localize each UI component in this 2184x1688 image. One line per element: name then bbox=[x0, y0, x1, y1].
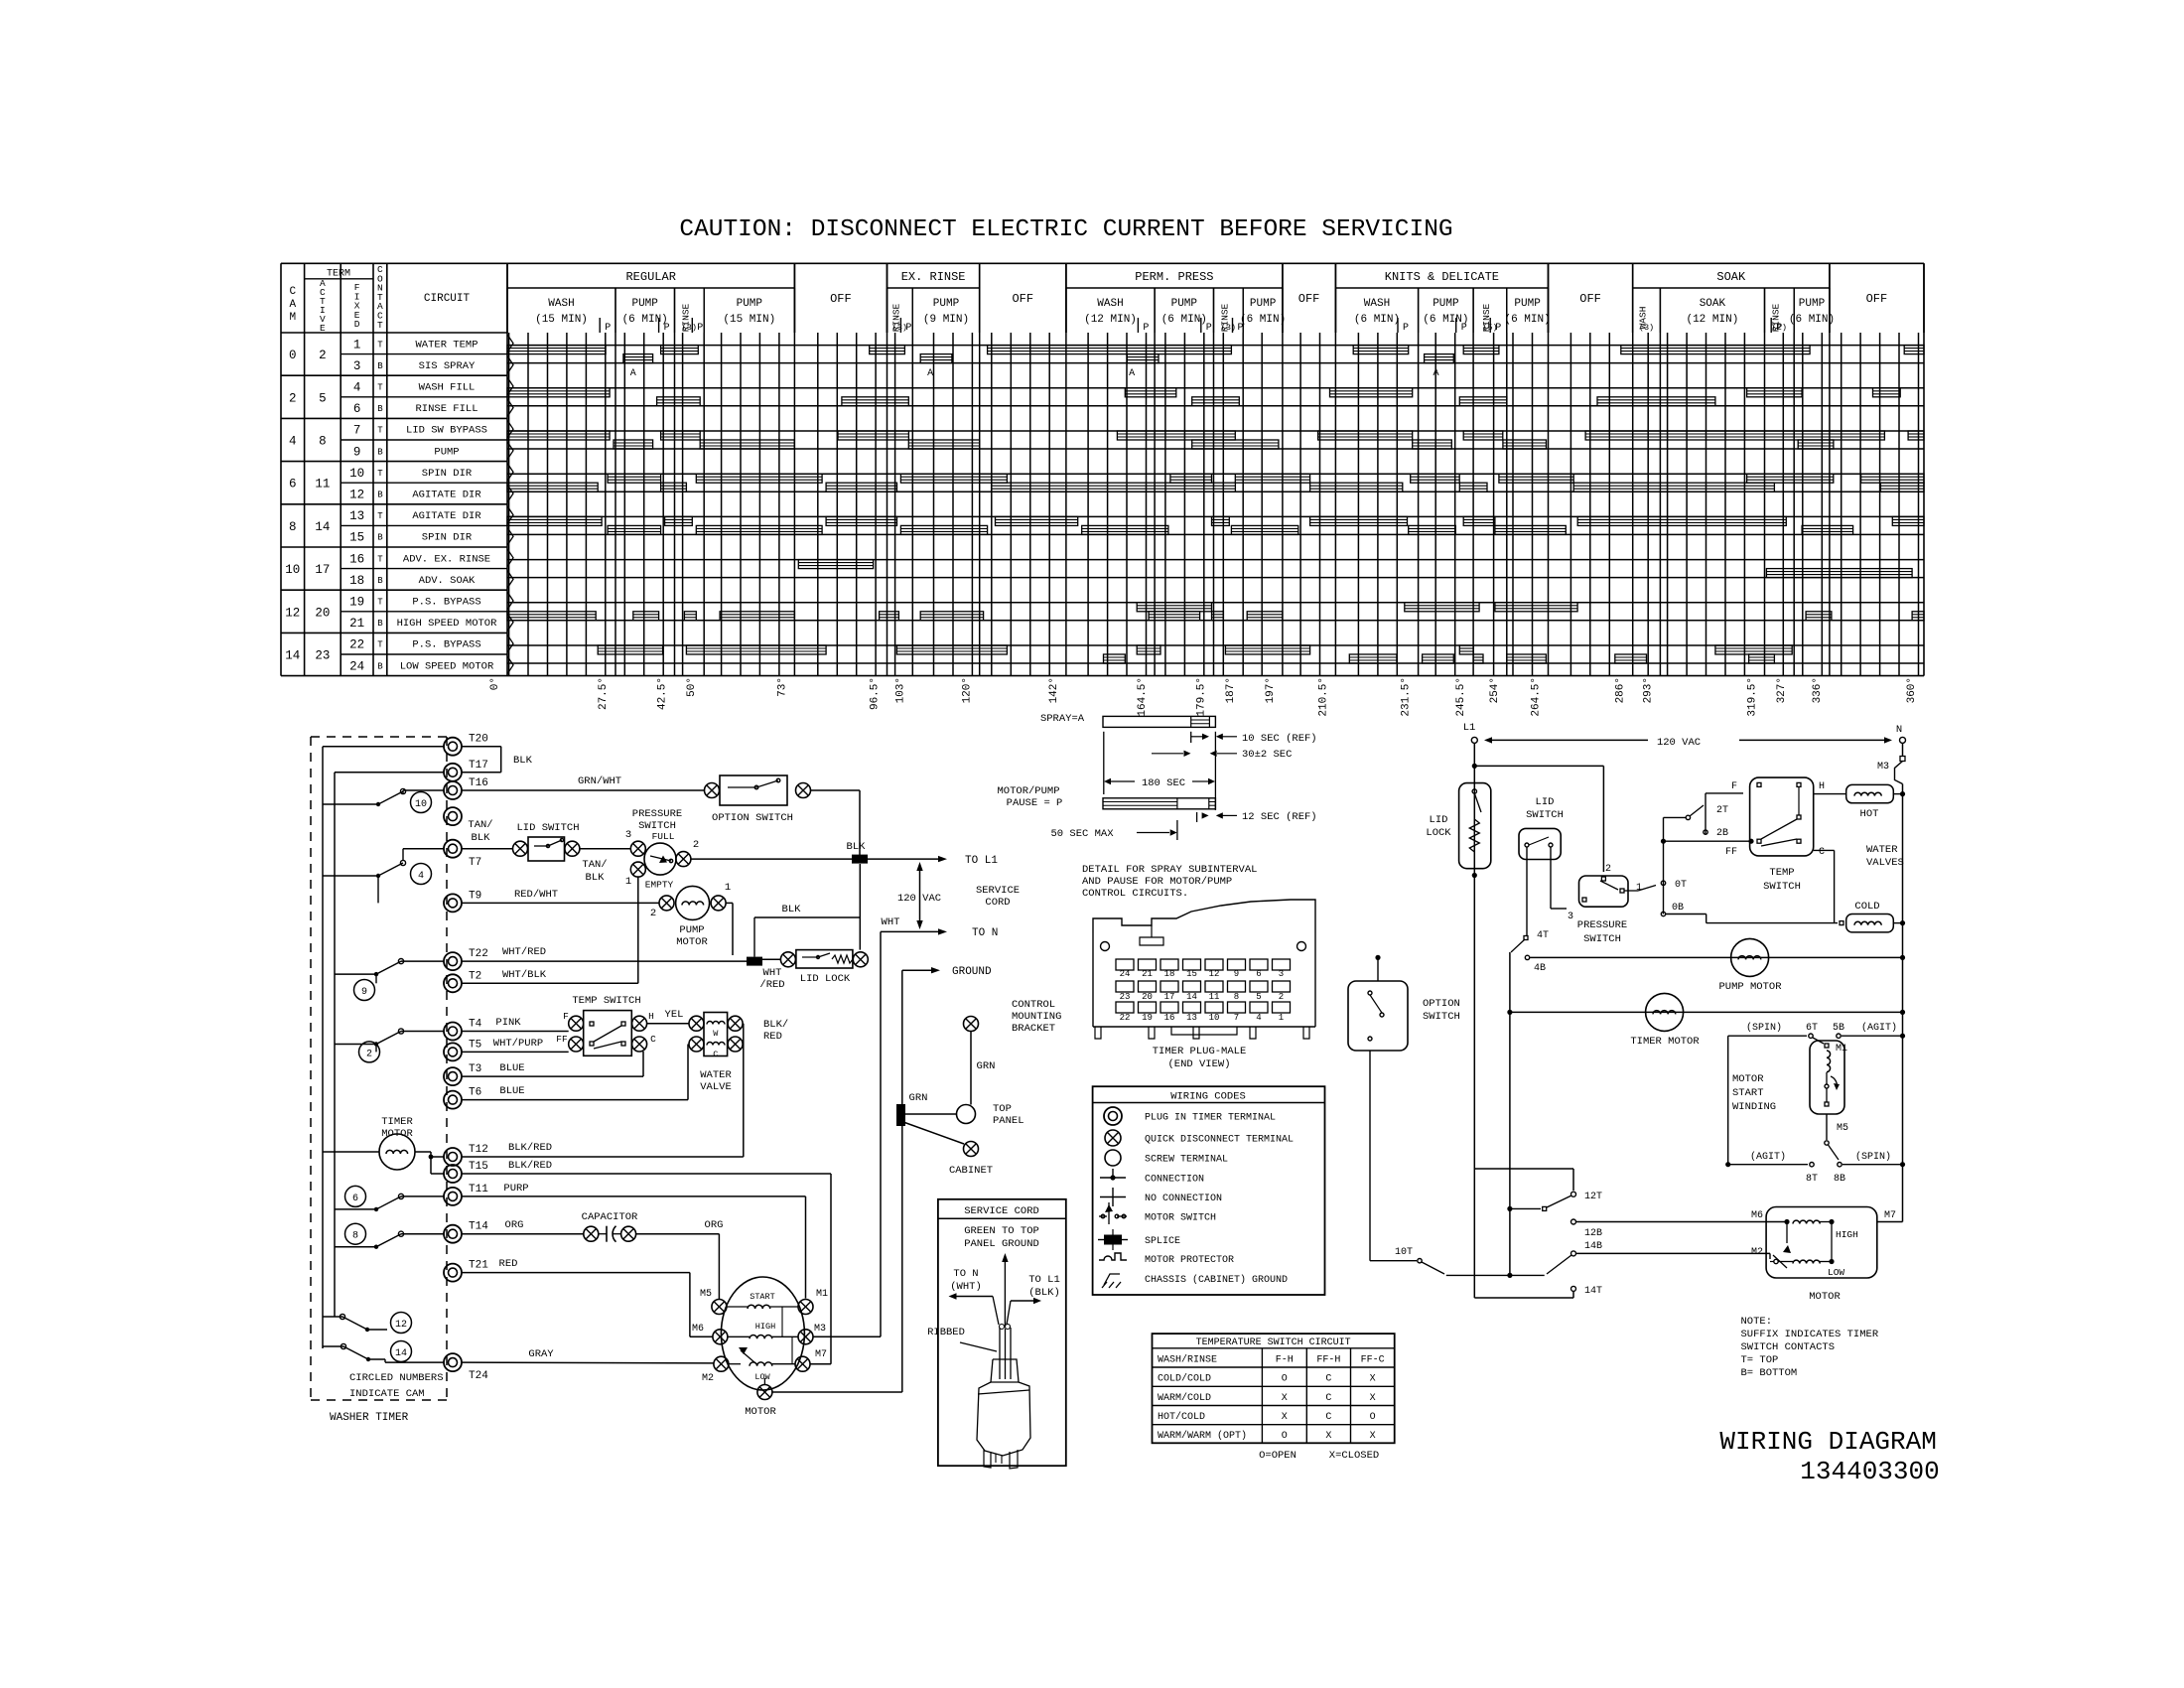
svg-text:C: C bbox=[1819, 847, 1825, 858]
svg-text:12T: 12T bbox=[1584, 1192, 1602, 1202]
svg-text:11: 11 bbox=[1209, 992, 1220, 1002]
svg-text:C: C bbox=[713, 1050, 718, 1059]
svg-text:WIRING DIAGRAM: WIRING DIAGRAM bbox=[1719, 1427, 1936, 1457]
svg-text:MOTOR PROTECTOR: MOTOR PROTECTOR bbox=[1145, 1255, 1234, 1266]
svg-text:PRESSURE: PRESSURE bbox=[1577, 919, 1627, 931]
svg-text:BRACKET: BRACKET bbox=[1012, 1023, 1055, 1035]
svg-text:(12 MIN): (12 MIN) bbox=[1084, 314, 1137, 326]
svg-text:PURP: PURP bbox=[503, 1183, 528, 1195]
svg-text:T= TOP: T= TOP bbox=[1741, 1354, 1779, 1366]
svg-text:142°: 142° bbox=[1048, 677, 1060, 703]
svg-text:24: 24 bbox=[1120, 969, 1131, 979]
svg-text:M3: M3 bbox=[814, 1324, 826, 1335]
svg-text:CIRCUIT: CIRCUIT bbox=[424, 293, 471, 305]
svg-text:TAN/: TAN/ bbox=[468, 819, 492, 831]
svg-text:WHT/RED: WHT/RED bbox=[502, 946, 546, 958]
svg-text:PUMP: PUMP bbox=[679, 924, 704, 936]
svg-text:ORG: ORG bbox=[505, 1219, 524, 1231]
svg-text:T: T bbox=[377, 426, 383, 436]
svg-text:T7: T7 bbox=[469, 857, 481, 869]
svg-text:4: 4 bbox=[289, 435, 297, 449]
svg-text:T24: T24 bbox=[469, 1370, 488, 1382]
svg-text:50°: 50° bbox=[686, 677, 698, 697]
svg-text:PANEL: PANEL bbox=[993, 1115, 1024, 1127]
svg-text:24: 24 bbox=[349, 659, 364, 673]
svg-text:CONTROL: CONTROL bbox=[1012, 999, 1055, 1011]
svg-text:BLK/RED: BLK/RED bbox=[508, 1142, 552, 1154]
svg-text:TEMP SWITCH: TEMP SWITCH bbox=[572, 995, 640, 1007]
svg-text:O: O bbox=[1282, 1374, 1288, 1385]
svg-text:(15 MIN): (15 MIN) bbox=[723, 314, 775, 326]
svg-text:CAUTION: DISCONNECT ELECTRIC C: CAUTION: DISCONNECT ELECTRIC CURRENT BEF… bbox=[679, 216, 1452, 243]
svg-text:FULL: FULL bbox=[652, 831, 675, 842]
svg-text:T: T bbox=[377, 383, 383, 393]
svg-text:(6 MIN): (6 MIN) bbox=[1789, 314, 1835, 326]
svg-text:12: 12 bbox=[395, 1320, 407, 1331]
svg-text:50 SEC MAX: 50 SEC MAX bbox=[1050, 828, 1114, 840]
svg-text:(3): (3) bbox=[1639, 323, 1654, 333]
svg-text:8T: 8T bbox=[1806, 1174, 1818, 1185]
svg-text:WARM/WARM (OPT): WARM/WARM (OPT) bbox=[1158, 1430, 1247, 1442]
svg-text:A: A bbox=[630, 368, 636, 379]
svg-text:/RED: /RED bbox=[759, 979, 784, 991]
svg-text:2: 2 bbox=[1279, 992, 1284, 1002]
svg-text:10: 10 bbox=[349, 467, 364, 481]
svg-text:2: 2 bbox=[693, 839, 699, 851]
svg-text:L1: L1 bbox=[1463, 722, 1476, 734]
svg-text:9: 9 bbox=[353, 445, 361, 459]
svg-text:23: 23 bbox=[315, 649, 330, 663]
svg-text:(SPIN): (SPIN) bbox=[1855, 1151, 1891, 1163]
svg-text:MOTOR: MOTOR bbox=[381, 1128, 413, 1140]
svg-text:HOT/COLD: HOT/COLD bbox=[1158, 1411, 1205, 1423]
svg-text:X: X bbox=[1282, 1393, 1288, 1404]
svg-text:2: 2 bbox=[319, 349, 327, 362]
svg-text:(WHT): (WHT) bbox=[950, 1281, 982, 1293]
svg-text:18: 18 bbox=[1164, 969, 1175, 979]
svg-text:PRESSURE: PRESSURE bbox=[632, 808, 682, 820]
svg-text:PUMP: PUMP bbox=[631, 298, 658, 310]
svg-text:WINDING: WINDING bbox=[1732, 1101, 1776, 1113]
svg-text:WHT: WHT bbox=[763, 967, 782, 979]
svg-text:PUMP: PUMP bbox=[1799, 298, 1826, 310]
svg-text:2: 2 bbox=[366, 1049, 372, 1059]
svg-text:14: 14 bbox=[1186, 992, 1197, 1002]
svg-text:13: 13 bbox=[349, 509, 364, 523]
svg-text:F-H: F-H bbox=[1276, 1355, 1294, 1366]
svg-text:(12 MIN): (12 MIN) bbox=[1686, 314, 1738, 326]
svg-text:A: A bbox=[289, 299, 296, 311]
svg-text:8: 8 bbox=[319, 435, 327, 449]
svg-text:SPIN DIR: SPIN DIR bbox=[422, 468, 473, 480]
svg-text:ORG: ORG bbox=[705, 1219, 724, 1231]
svg-text:PUMP MOTOR: PUMP MOTOR bbox=[1718, 981, 1782, 993]
svg-text:PINK: PINK bbox=[495, 1017, 521, 1029]
svg-text:TAN/: TAN/ bbox=[582, 859, 607, 871]
svg-text:12: 12 bbox=[285, 606, 300, 620]
svg-text:(BLK): (BLK) bbox=[1028, 1287, 1060, 1299]
svg-text:16: 16 bbox=[349, 552, 364, 566]
svg-text:15: 15 bbox=[349, 531, 364, 545]
svg-text:10: 10 bbox=[285, 563, 300, 577]
svg-text:VALVES: VALVES bbox=[1866, 857, 1904, 869]
svg-text:120 VAC: 120 VAC bbox=[1657, 737, 1701, 749]
svg-text:M2: M2 bbox=[1751, 1247, 1763, 1258]
svg-text:GROUND: GROUND bbox=[952, 966, 992, 978]
svg-text:OFF: OFF bbox=[1866, 292, 1888, 306]
svg-text:CHASSIS (CABINET) GROUND: CHASSIS (CABINET) GROUND bbox=[1145, 1274, 1288, 1286]
svg-text:14: 14 bbox=[315, 520, 330, 534]
svg-text:LOW: LOW bbox=[754, 1372, 770, 1382]
svg-text:1: 1 bbox=[1636, 883, 1642, 894]
svg-text:14B: 14B bbox=[1584, 1241, 1602, 1252]
svg-text:(3): (3) bbox=[1221, 323, 1236, 333]
svg-text:KNITS & DELICATE: KNITS & DELICATE bbox=[1385, 270, 1499, 284]
svg-text:P: P bbox=[905, 323, 911, 334]
svg-text:PUMP: PUMP bbox=[1250, 298, 1277, 310]
svg-text:M2: M2 bbox=[702, 1373, 714, 1384]
svg-text:M3: M3 bbox=[1877, 762, 1889, 773]
svg-text:N: N bbox=[1896, 724, 1902, 736]
svg-text:BLK: BLK bbox=[586, 872, 606, 884]
svg-text:T3: T3 bbox=[469, 1063, 481, 1075]
svg-text:P: P bbox=[1206, 323, 1212, 334]
svg-text:T14: T14 bbox=[469, 1221, 488, 1233]
svg-text:336°: 336° bbox=[1812, 677, 1824, 703]
svg-text:19: 19 bbox=[1142, 1013, 1153, 1023]
svg-text:X: X bbox=[1370, 1431, 1376, 1442]
svg-text:SOAK: SOAK bbox=[1700, 298, 1726, 310]
svg-text:5B: 5B bbox=[1833, 1023, 1844, 1034]
svg-text:12B: 12B bbox=[1584, 1228, 1602, 1239]
svg-text:WIRING CODES: WIRING CODES bbox=[1170, 1091, 1246, 1103]
svg-text:(AGIT): (AGIT) bbox=[1750, 1151, 1786, 1163]
svg-text:C: C bbox=[650, 1034, 656, 1045]
svg-text:SOAK: SOAK bbox=[1716, 270, 1746, 284]
svg-text:SPLICE: SPLICE bbox=[1145, 1236, 1180, 1247]
svg-text:SIS SPRAY: SIS SPRAY bbox=[419, 360, 476, 372]
svg-text:X: X bbox=[1282, 1412, 1288, 1423]
svg-text:B: B bbox=[377, 619, 383, 629]
svg-text:AGITATE DIR: AGITATE DIR bbox=[412, 490, 481, 501]
svg-text:C: C bbox=[289, 286, 296, 298]
svg-text:COLD/COLD: COLD/COLD bbox=[1158, 1373, 1211, 1385]
svg-text:10T: 10T bbox=[1395, 1247, 1413, 1258]
svg-text:PUMP: PUMP bbox=[933, 298, 960, 310]
svg-text:M5: M5 bbox=[700, 1289, 712, 1300]
svg-text:DETAIL FOR SPRAY SUBINTERVAL: DETAIL FOR SPRAY SUBINTERVAL bbox=[1082, 864, 1257, 876]
svg-text:180 SEC: 180 SEC bbox=[1142, 777, 1185, 789]
svg-text:6: 6 bbox=[1256, 969, 1261, 979]
svg-text:BLK: BLK bbox=[782, 904, 802, 915]
svg-text:(6 MIN): (6 MIN) bbox=[1240, 314, 1286, 326]
svg-text:T11: T11 bbox=[469, 1184, 488, 1196]
svg-text:OFF: OFF bbox=[830, 292, 852, 306]
svg-text:SERVICE: SERVICE bbox=[976, 885, 1020, 897]
svg-text:LOW: LOW bbox=[1828, 1267, 1844, 1278]
svg-text:9: 9 bbox=[1234, 969, 1239, 979]
svg-text:MOTOR: MOTOR bbox=[1732, 1073, 1764, 1085]
svg-text:8: 8 bbox=[289, 520, 297, 534]
svg-text:6: 6 bbox=[352, 1194, 358, 1204]
svg-text:5: 5 bbox=[1256, 992, 1261, 1002]
svg-text:VALVE: VALVE bbox=[700, 1081, 732, 1093]
svg-text:HIGH SPEED MOTOR: HIGH SPEED MOTOR bbox=[397, 618, 498, 630]
svg-text:T2: T2 bbox=[469, 970, 481, 982]
svg-text:WATER TEMP: WATER TEMP bbox=[415, 339, 478, 351]
svg-text:P: P bbox=[664, 323, 670, 334]
svg-text:SERVICE CORD: SERVICE CORD bbox=[964, 1205, 1039, 1217]
svg-text:WARM/COLD: WARM/COLD bbox=[1158, 1392, 1211, 1404]
svg-text:M6: M6 bbox=[1751, 1210, 1763, 1221]
svg-text:0°: 0° bbox=[489, 677, 501, 690]
svg-text:17: 17 bbox=[315, 563, 330, 577]
svg-text:P: P bbox=[1403, 323, 1409, 334]
svg-text:T: T bbox=[377, 554, 383, 564]
svg-text:E: E bbox=[320, 323, 326, 334]
svg-text:360°: 360° bbox=[1906, 677, 1918, 703]
svg-text:EX. RINSE: EX. RINSE bbox=[901, 270, 966, 284]
svg-text:FF-C: FF-C bbox=[1361, 1355, 1385, 1366]
svg-text:T: T bbox=[377, 640, 383, 650]
svg-text:(6 MIN): (6 MIN) bbox=[1161, 314, 1207, 326]
svg-text:CIRCLED NUMBERS: CIRCLED NUMBERS bbox=[349, 1372, 444, 1384]
svg-text:SPIN DIR: SPIN DIR bbox=[422, 532, 473, 544]
svg-text:254°: 254° bbox=[1489, 677, 1501, 703]
svg-text:7: 7 bbox=[1234, 1013, 1239, 1023]
svg-text:RED/WHT: RED/WHT bbox=[514, 889, 558, 901]
svg-text:SWITCH: SWITCH bbox=[1526, 809, 1564, 821]
svg-text:A: A bbox=[1129, 368, 1135, 379]
svg-text:4B: 4B bbox=[1534, 963, 1546, 974]
svg-text:WHT/PURP: WHT/PURP bbox=[493, 1038, 543, 1050]
svg-text:SWITCH: SWITCH bbox=[1583, 933, 1621, 945]
svg-text:0B: 0B bbox=[1672, 903, 1684, 914]
svg-text:TIMER PLUG-MALE: TIMER PLUG-MALE bbox=[1153, 1046, 1247, 1057]
svg-text:10: 10 bbox=[415, 799, 427, 810]
svg-text:WATER: WATER bbox=[1866, 844, 1898, 856]
svg-text:17: 17 bbox=[1164, 992, 1175, 1002]
svg-text:CAPACITOR: CAPACITOR bbox=[582, 1211, 638, 1223]
svg-text:15: 15 bbox=[1186, 969, 1197, 979]
svg-text:(SPIN): (SPIN) bbox=[1746, 1022, 1782, 1034]
svg-text:1: 1 bbox=[353, 338, 361, 352]
svg-text:23: 23 bbox=[1120, 992, 1131, 1002]
svg-text:8: 8 bbox=[352, 1231, 358, 1242]
svg-text:P: P bbox=[1495, 323, 1501, 334]
svg-text:B: B bbox=[377, 661, 383, 671]
svg-text:22: 22 bbox=[349, 638, 364, 652]
svg-text:P: P bbox=[1776, 323, 1782, 334]
svg-text:10: 10 bbox=[1209, 1013, 1220, 1023]
svg-text:LID LOCK: LID LOCK bbox=[800, 973, 851, 985]
svg-text:OPTION SWITCH: OPTION SWITCH bbox=[712, 812, 793, 824]
svg-text:MOTOR: MOTOR bbox=[745, 1406, 776, 1418]
svg-text:WASH FILL: WASH FILL bbox=[419, 382, 476, 394]
svg-text:B: B bbox=[377, 491, 383, 500]
svg-text:M6: M6 bbox=[692, 1324, 704, 1335]
svg-text:6: 6 bbox=[289, 478, 297, 492]
svg-text:WASH/RINSE: WASH/RINSE bbox=[1158, 1354, 1217, 1366]
svg-text:B: B bbox=[377, 576, 383, 586]
svg-text:PERM. PRESS: PERM. PRESS bbox=[1135, 270, 1213, 284]
svg-text:P: P bbox=[605, 323, 611, 334]
svg-text:T21: T21 bbox=[469, 1260, 488, 1272]
svg-text:21: 21 bbox=[1142, 969, 1153, 979]
svg-text:T17: T17 bbox=[469, 760, 488, 772]
svg-text:MOTOR/PUMP: MOTOR/PUMP bbox=[997, 785, 1059, 797]
svg-text:T6: T6 bbox=[469, 1087, 481, 1099]
svg-text:START: START bbox=[1732, 1087, 1764, 1099]
svg-text:TERM: TERM bbox=[327, 269, 350, 280]
svg-text:P: P bbox=[697, 323, 703, 334]
svg-text:TOP: TOP bbox=[993, 1103, 1012, 1115]
svg-text:H: H bbox=[648, 1011, 654, 1022]
svg-text:264.5°: 264.5° bbox=[1531, 677, 1543, 717]
svg-text:1: 1 bbox=[725, 882, 731, 894]
svg-text:PANEL GROUND: PANEL GROUND bbox=[964, 1238, 1039, 1250]
svg-text:14: 14 bbox=[395, 1348, 407, 1359]
svg-text:210.5°: 210.5° bbox=[1317, 677, 1329, 717]
svg-text:21: 21 bbox=[349, 617, 364, 631]
svg-text:(6 MIN): (6 MIN) bbox=[1354, 314, 1400, 326]
svg-text:2T: 2T bbox=[1716, 805, 1728, 816]
svg-text:12 SEC (REF): 12 SEC (REF) bbox=[1242, 811, 1317, 823]
svg-text:REGULAR: REGULAR bbox=[625, 270, 675, 284]
svg-text:4: 4 bbox=[1256, 1013, 1261, 1023]
svg-text:2: 2 bbox=[650, 908, 656, 919]
svg-text:2: 2 bbox=[289, 391, 297, 405]
svg-text:WASH: WASH bbox=[548, 298, 574, 310]
svg-text:AND PAUSE FOR MOTOR/PUMP: AND PAUSE FOR MOTOR/PUMP bbox=[1082, 876, 1232, 888]
svg-text:179.5°: 179.5° bbox=[1196, 677, 1208, 717]
svg-text:M1: M1 bbox=[816, 1289, 828, 1300]
svg-text:OPTION: OPTION bbox=[1423, 998, 1460, 1010]
svg-text:C: C bbox=[1325, 1374, 1331, 1385]
svg-text:X: X bbox=[1325, 1431, 1331, 1442]
svg-text:TIMER: TIMER bbox=[381, 1116, 413, 1128]
svg-text:T9: T9 bbox=[469, 890, 481, 902]
svg-text:1: 1 bbox=[625, 876, 631, 888]
svg-text:O: O bbox=[1370, 1412, 1376, 1423]
svg-text:T16: T16 bbox=[469, 777, 488, 789]
svg-text:0T: 0T bbox=[1675, 880, 1687, 891]
svg-text:P.S. BYPASS: P.S. BYPASS bbox=[412, 597, 480, 609]
svg-text:(AGIT): (AGIT) bbox=[1861, 1022, 1897, 1034]
svg-text:O: O bbox=[1282, 1431, 1288, 1442]
svg-text:TEMP: TEMP bbox=[1769, 867, 1794, 879]
svg-text:CONNECTION: CONNECTION bbox=[1145, 1175, 1204, 1186]
svg-text:319.5°: 319.5° bbox=[1747, 677, 1759, 717]
svg-text:MOTOR SWITCH: MOTOR SWITCH bbox=[1145, 1213, 1216, 1224]
svg-text:0: 0 bbox=[289, 349, 297, 362]
svg-text:GRN/WHT: GRN/WHT bbox=[578, 775, 621, 787]
svg-text:12: 12 bbox=[1209, 969, 1220, 979]
svg-text:(6 MIN): (6 MIN) bbox=[622, 314, 668, 326]
svg-text:GREEN TO TOP: GREEN TO TOP bbox=[964, 1225, 1039, 1237]
svg-text:BLK/RED: BLK/RED bbox=[508, 1160, 552, 1172]
svg-text:SWITCH: SWITCH bbox=[1423, 1011, 1460, 1023]
svg-text:HOT: HOT bbox=[1860, 808, 1879, 820]
svg-text:12: 12 bbox=[349, 489, 364, 502]
svg-text:27.5°: 27.5° bbox=[598, 677, 610, 710]
svg-text:OFF: OFF bbox=[1579, 292, 1601, 306]
svg-text:MOTOR: MOTOR bbox=[1809, 1291, 1841, 1303]
svg-text:PUMP: PUMP bbox=[1514, 298, 1541, 310]
svg-text:10 SEC (REF): 10 SEC (REF) bbox=[1242, 733, 1317, 745]
svg-text:P: P bbox=[1143, 323, 1149, 334]
svg-text:134403300: 134403300 bbox=[1800, 1457, 1939, 1486]
svg-text:73°: 73° bbox=[776, 677, 788, 697]
svg-text:(9 MIN): (9 MIN) bbox=[923, 314, 969, 326]
svg-text:WHT: WHT bbox=[882, 916, 900, 928]
svg-text:M7: M7 bbox=[815, 1349, 827, 1360]
svg-text:(3): (3) bbox=[682, 323, 697, 333]
svg-text:CORD: CORD bbox=[985, 897, 1010, 909]
svg-text:M7: M7 bbox=[1884, 1210, 1896, 1221]
svg-text:INDICATE CAM: INDICATE CAM bbox=[349, 1388, 425, 1400]
svg-text:FF: FF bbox=[556, 1034, 568, 1045]
svg-text:NO CONNECTION: NO CONNECTION bbox=[1145, 1194, 1222, 1204]
svg-text:(15 MIN): (15 MIN) bbox=[535, 314, 588, 326]
svg-text:TO N: TO N bbox=[972, 927, 998, 939]
svg-text:PUMP: PUMP bbox=[1171, 298, 1198, 310]
svg-text:231.5°: 231.5° bbox=[1401, 677, 1413, 717]
svg-text:M1: M1 bbox=[1836, 1044, 1847, 1055]
svg-text:T4: T4 bbox=[469, 1019, 482, 1031]
svg-text:RIBBED: RIBBED bbox=[927, 1327, 965, 1338]
svg-text:X: X bbox=[1370, 1393, 1376, 1404]
svg-text:FF: FF bbox=[1725, 847, 1737, 858]
svg-text:(END VIEW): (END VIEW) bbox=[1167, 1058, 1230, 1070]
svg-text:A: A bbox=[1433, 368, 1438, 379]
svg-text:3: 3 bbox=[1568, 912, 1573, 922]
svg-text:SCREW TERMINAL: SCREW TERMINAL bbox=[1145, 1155, 1228, 1166]
svg-text:T12: T12 bbox=[469, 1144, 488, 1156]
svg-text:8B: 8B bbox=[1834, 1174, 1845, 1185]
svg-text:X: X bbox=[1370, 1374, 1376, 1385]
svg-text:7: 7 bbox=[353, 424, 361, 438]
svg-text:OFF: OFF bbox=[1012, 292, 1033, 306]
svg-text:QUICK DISCONNECT TERMINAL: QUICK DISCONNECT TERMINAL bbox=[1145, 1135, 1294, 1146]
svg-text:T5: T5 bbox=[469, 1039, 481, 1051]
svg-text:WASH: WASH bbox=[1364, 298, 1390, 310]
svg-text:5: 5 bbox=[319, 391, 327, 405]
svg-text:1: 1 bbox=[1279, 1013, 1284, 1023]
svg-text:(6 MIN): (6 MIN) bbox=[1504, 314, 1550, 326]
svg-text:WASH: WASH bbox=[1097, 298, 1123, 310]
svg-text:BLK: BLK bbox=[847, 841, 867, 853]
svg-text:197°: 197° bbox=[1265, 677, 1277, 703]
svg-text:A: A bbox=[927, 368, 933, 379]
svg-text:RINSE FILL: RINSE FILL bbox=[415, 403, 478, 415]
svg-text:6T: 6T bbox=[1806, 1023, 1818, 1034]
svg-text:PUMP: PUMP bbox=[1433, 298, 1459, 310]
svg-text:X=CLOSED: X=CLOSED bbox=[1329, 1450, 1379, 1462]
svg-text:GRAY: GRAY bbox=[528, 1348, 554, 1360]
svg-text:245.5°: 245.5° bbox=[1455, 677, 1467, 717]
svg-text:LID: LID bbox=[1536, 796, 1555, 808]
svg-text:YEL: YEL bbox=[665, 1009, 684, 1021]
svg-text:C: C bbox=[1325, 1393, 1331, 1404]
svg-text:ADV. SOAK: ADV. SOAK bbox=[419, 575, 476, 587]
svg-text:9: 9 bbox=[361, 987, 367, 998]
svg-text:OFF: OFF bbox=[1298, 292, 1320, 306]
svg-text:AGITATE DIR: AGITATE DIR bbox=[412, 510, 481, 522]
svg-text:RED: RED bbox=[499, 1258, 518, 1270]
svg-text:FF-H: FF-H bbox=[1316, 1355, 1340, 1366]
svg-text:286°: 286° bbox=[1615, 677, 1627, 703]
